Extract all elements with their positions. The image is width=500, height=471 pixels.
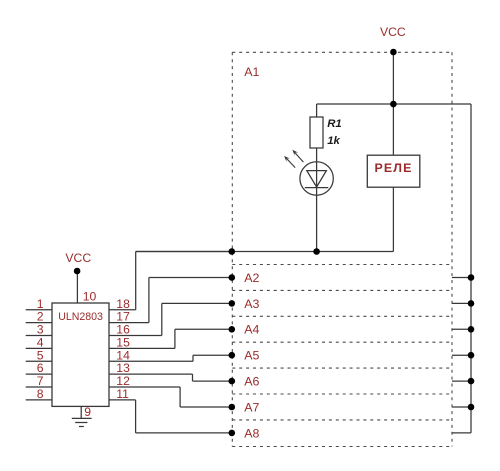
svg-text:11: 11 bbox=[116, 387, 129, 401]
svg-text:13: 13 bbox=[116, 361, 130, 375]
svg-text:A2: A2 bbox=[244, 271, 259, 285]
svg-text:A3: A3 bbox=[244, 297, 259, 311]
svg-text:VCC: VCC bbox=[65, 251, 91, 265]
svg-text:ULN2803: ULN2803 bbox=[58, 311, 103, 323]
svg-text:VCC: VCC bbox=[380, 25, 406, 39]
svg-text:1k: 1k bbox=[327, 135, 340, 147]
svg-text:17: 17 bbox=[116, 310, 130, 324]
svg-text:12: 12 bbox=[116, 374, 130, 388]
svg-text:8: 8 bbox=[37, 387, 44, 401]
svg-text:7: 7 bbox=[37, 374, 44, 388]
svg-text:R1: R1 bbox=[327, 118, 342, 130]
svg-text:A6: A6 bbox=[244, 375, 259, 389]
svg-text:3: 3 bbox=[37, 323, 44, 337]
svg-text:A1: A1 bbox=[244, 65, 259, 79]
svg-text:A7: A7 bbox=[244, 400, 259, 414]
svg-text:4: 4 bbox=[37, 336, 44, 350]
svg-text:16: 16 bbox=[116, 323, 130, 337]
svg-text:A4: A4 bbox=[244, 323, 259, 337]
svg-text:2: 2 bbox=[37, 310, 44, 324]
svg-text:РЕЛЕ: РЕЛЕ bbox=[375, 161, 413, 175]
svg-text:A5: A5 bbox=[244, 349, 259, 363]
svg-text:9: 9 bbox=[84, 405, 91, 419]
svg-text:6: 6 bbox=[37, 361, 44, 375]
svg-text:15: 15 bbox=[116, 336, 130, 350]
svg-text:A8: A8 bbox=[244, 426, 259, 440]
svg-text:10: 10 bbox=[83, 289, 97, 303]
